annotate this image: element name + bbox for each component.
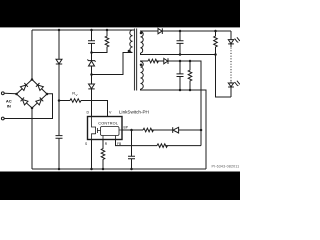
node ground S (90, 168, 93, 171)
node clamp (90, 51, 93, 54)
phasing dot primary (128, 50, 131, 53)
transformer T1 primary winding (130, 30, 133, 53)
resistor R2 (preload) (214, 31, 218, 55)
transformer core (135, 29, 137, 91)
wire BP mid (152, 129, 173, 131)
wire secondary bottom return (141, 53, 216, 55)
IC internal controller block (101, 127, 120, 136)
node return cap (179, 53, 182, 56)
wire ground rail (32, 168, 206, 170)
node return preload (214, 53, 217, 56)
wire bus line x59 middle (58, 64, 60, 135)
wire FB pin (116, 140, 158, 146)
diode D5 (bus line) (56, 59, 62, 64)
capacitor C1 (bus) (56, 136, 63, 139)
top black band (0, 0, 240, 27)
resistor R4 (bias divider) (188, 61, 192, 90)
wire BP pin (122, 129, 143, 131)
node bridge right (46, 93, 49, 96)
node bridge top (31, 78, 34, 81)
wire bus line x59 lower (58, 138, 60, 169)
node ground BP cap (130, 168, 133, 171)
node bias return cap (179, 89, 182, 92)
wire output rail (162, 30, 231, 32)
resistor RV (70, 99, 81, 103)
diode D9 (BP charge, pointing left) (172, 127, 174, 133)
node out rail cap (179, 30, 182, 33)
node bias BP junction (200, 129, 203, 132)
LED string top lead (230, 31, 232, 40)
svg-text:IN: IN (7, 104, 11, 109)
zener VR1 (91, 53, 93, 61)
clamp resistor R1 (92, 30, 109, 53)
bridge diode D3 (bottom-left edge) (21, 98, 28, 105)
node ground R (102, 168, 105, 171)
wire BP to bias node (179, 129, 201, 131)
wire zener to primary node (91, 66, 93, 84)
clamp capacitor C2 leads (91, 30, 93, 41)
svg-text:D: D (87, 111, 90, 115)
wire bridge bottom vertex to ground rail (31, 108, 33, 169)
diode D6 (series blocking) (89, 84, 95, 89)
bottom black band (0, 172, 240, 201)
wire drain to IC D pin (91, 89, 93, 117)
wire RV to V pin (81, 101, 108, 117)
wire bias node (168, 61, 201, 146)
node bridge left (15, 93, 18, 96)
capacitor C4 (bias) (177, 61, 184, 90)
wire bias return (141, 89, 207, 169)
wire primary bottom to drain node (92, 53, 133, 75)
wire top rail (32, 29, 134, 31)
node BP tap (130, 129, 133, 132)
op IC U1 LinkSwitch-PH body (88, 117, 123, 140)
capacitor C2 (88, 41, 95, 44)
node bias rail cap (179, 60, 182, 63)
phasing dot bias (140, 64, 143, 67)
resistor R6 (FB) (157, 144, 167, 148)
wire bias mid (157, 60, 164, 62)
svg-text:PI-6343-082011: PI-6343-082011 (212, 165, 240, 169)
node bias return res (189, 89, 192, 92)
capacitor C3 (output) (177, 31, 184, 55)
wire bus line x59 upper (58, 30, 60, 59)
wire secondary top to output diode (141, 30, 159, 33)
wire AC bottom to bridge right vertex (4, 94, 52, 119)
wire bridge top vertex to top rail (31, 30, 33, 80)
node RV (58, 99, 61, 102)
IC internal R FB leads (103, 130, 122, 140)
capacitor C5 (BP) (128, 130, 135, 169)
resistor R7 (R pin) (101, 140, 105, 170)
wire FB to bias node (166, 145, 202, 147)
node top rail x107 (106, 29, 109, 32)
LED string dashed (230, 44, 232, 47)
AC terminal bottom (1, 117, 4, 120)
bridge diode D1 (left-top edge) (20, 83, 27, 90)
wire S pin to ground (91, 140, 93, 170)
wire output return down (216, 55, 232, 98)
node bias rail res (189, 60, 192, 63)
node drain (90, 73, 93, 76)
node top rail x59 (58, 29, 61, 32)
bridge rectifier diamond wires (17, 80, 48, 109)
svg-text:LinkSwitch-PH: LinkSwitch-PH (119, 110, 149, 115)
transformer bias winding (141, 62, 144, 90)
node top rail x91 (90, 29, 93, 32)
LED string bottom lead (230, 87, 232, 97)
diode D7 (output rectifier) (158, 28, 162, 33)
svg-text:CONTROL: CONTROL (98, 122, 118, 126)
transformer secondary winding (141, 32, 144, 54)
wire AC top to bridge left vertex (4, 92, 16, 95)
resistor R5 (BP) (143, 128, 153, 132)
phasing dot secondary (140, 32, 143, 35)
bridge diode D2 (top-right edge) (36, 83, 43, 90)
node ground x59 (58, 168, 61, 171)
diode D8 (bias rectifier) (164, 58, 168, 63)
node out rail preload (214, 30, 217, 33)
node bridge bottom (31, 107, 34, 110)
resistor RV wire (59, 100, 70, 102)
bridge diode D4 (bottom-right edge) (36, 98, 43, 105)
wire bias top (141, 60, 149, 63)
LED LED2 (230, 82, 232, 84)
resistor R3 (bias) (148, 59, 158, 63)
LED LED1 (228, 40, 233, 44)
svg-text:V: V (76, 93, 78, 97)
AC terminal top (1, 92, 4, 95)
IC internal MOSFET (92, 117, 101, 140)
